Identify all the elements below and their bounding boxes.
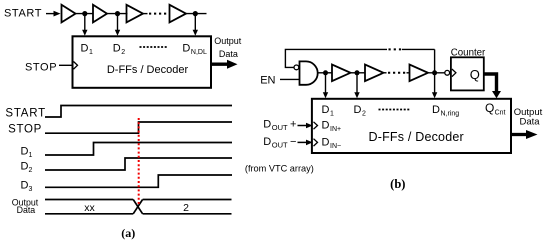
svg-text:STOP: STOP (25, 62, 57, 74)
svg-text:Q: Q (470, 67, 480, 82)
svg-text:1: 1 (29, 152, 33, 159)
svg-text:D: D (354, 104, 362, 116)
svg-text:2: 2 (29, 167, 33, 174)
svg-text:Data: Data (219, 49, 238, 59)
svg-text:D: D (322, 120, 330, 132)
svg-text:START: START (4, 8, 42, 20)
svg-text:D: D (113, 43, 121, 55)
svg-text:−: − (290, 136, 296, 148)
svg-text:START: START (5, 108, 46, 120)
svg-text:Data: Data (519, 117, 540, 128)
svg-text:2: 2 (183, 202, 189, 214)
svg-text:D-FFs / Decoder: D-FFs / Decoder (369, 130, 464, 144)
svg-text:Cnt: Cnt (495, 110, 506, 117)
svg-text:1: 1 (89, 49, 93, 56)
svg-text:D: D (21, 179, 29, 191)
svg-text:IN−: IN− (330, 143, 341, 150)
svg-text:xx: xx (84, 202, 95, 214)
svg-text:1: 1 (330, 111, 334, 118)
svg-text:2: 2 (121, 49, 125, 56)
svg-text:D-FFs / Decoder: D-FFs / Decoder (107, 64, 189, 76)
svg-text:Q: Q (485, 101, 494, 115)
svg-text:(a): (a) (121, 226, 135, 240)
svg-text:D: D (432, 104, 440, 116)
svg-text:D: D (21, 160, 29, 172)
svg-text:OUT: OUT (272, 141, 288, 150)
svg-text:OUT: OUT (272, 123, 288, 132)
svg-text:EN: EN (260, 75, 275, 87)
svg-text:Output: Output (214, 36, 242, 46)
svg-text:D: D (81, 43, 89, 55)
svg-text:D: D (263, 118, 271, 130)
svg-text:IN+: IN+ (330, 126, 341, 133)
svg-text:D: D (263, 136, 271, 148)
svg-text:N,ring: N,ring (441, 111, 460, 118)
svg-text:(b): (b) (390, 177, 405, 191)
svg-text:D: D (21, 146, 29, 158)
svg-text:D: D (322, 137, 330, 149)
svg-text:D: D (322, 104, 330, 116)
svg-text:+: + (290, 118, 296, 130)
svg-text:N,DL: N,DL (191, 49, 207, 56)
svg-text:STOP: STOP (8, 124, 42, 136)
svg-text:3: 3 (29, 186, 33, 193)
svg-text:Data: Data (17, 205, 36, 215)
svg-text:(from VTC array): (from VTC array) (245, 164, 314, 174)
svg-text:D: D (182, 43, 190, 55)
svg-text:2: 2 (362, 111, 366, 118)
